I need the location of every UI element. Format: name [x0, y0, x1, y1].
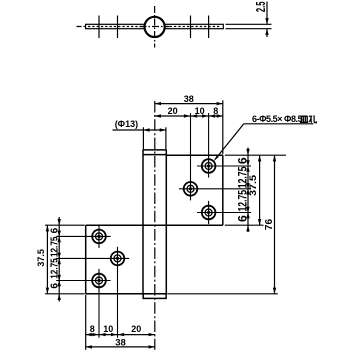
extension: middle edge right — [225, 224, 264, 226]
front view: right plate top edge — [166, 154, 223, 156]
chain text 6 (left bottom) — [49, 283, 60, 289]
dimension 37.5 (left): text — [36, 249, 46, 267]
svg-text:8: 8 — [213, 106, 218, 116]
dimension 2.5: dimension line with arrows — [265, 2, 268, 38]
extension: right plate top edge right — [225, 154, 286, 156]
extension: bottom edge left — [45, 293, 85, 295]
dimension (phi13): dimension line — [113, 128, 166, 131]
front view: barrel top edge — [143, 149, 167, 151]
svg-text:10: 10 — [103, 324, 113, 334]
top view: hidden hole line (dashed) — [88, 26, 221, 28]
top view: hole mark 1 — [98, 16, 100, 39]
dimension 8 (top): text — [213, 106, 218, 116]
leader note: leader line to hole R1 — [214, 124, 244, 161]
dimension 2.5: top extension line — [226, 23, 272, 25]
top view: hole mark 2 — [117, 16, 119, 39]
chain text 6 (right bottom) — [235, 215, 249, 222]
dimension 10 (top): text — [195, 106, 205, 116]
extension: plate left edge down — [85, 295, 87, 350]
svg-text:38: 38 — [115, 338, 126, 349]
front view: middle edge across barrel — [86, 224, 223, 226]
extension: plate right edge up — [222, 100, 224, 154]
dimension 37.5 (right): line — [258, 155, 261, 225]
dimension 76: text — [264, 219, 275, 231]
dimension 37.5 (left): line — [46, 225, 49, 294]
svg-text:6: 6 — [235, 215, 249, 222]
chain dimension line (left 6/12.75/12.75/6) — [58, 217, 61, 302]
top view: circle horizontal centerline — [140, 26, 170, 28]
hole R1 (top right, countersunk) — [197, 113, 251, 178]
dimension 8/10/20 (bottom): line — [86, 333, 155, 336]
top view: circle vertical centerline — [154, 6, 156, 48]
chain text 12.75 (right lower) — [235, 190, 249, 212]
extension: bottom edge right — [167, 293, 277, 295]
top view: hinge plate bar outline — [86, 24, 224, 28]
svg-text:38: 38 — [184, 94, 194, 104]
dimension 20 (bottom): text — [131, 324, 141, 334]
extension: middle edge left — [45, 224, 85, 226]
leader note 6-phi5.5 x phi8.5: text — [252, 114, 303, 124]
chain text 6 (left top) — [49, 227, 60, 233]
front view: bottom cap — [143, 294, 166, 299]
hole L3 (bottom left) — [56, 269, 110, 338]
chain text 12.75 (left lower) — [49, 258, 60, 279]
dimension 38 (bottom): line — [86, 345, 155, 348]
dimension 76: line — [273, 155, 276, 294]
leader note: underline — [244, 123, 314, 125]
top view: hole mark 3 — [190, 16, 192, 39]
front view: barrel left edge — [142, 150, 144, 294]
svg-text:6-Φ5.5× Φ8.5: 6-Φ5.5× Φ8.5 — [252, 114, 303, 124]
dimension 2.5: bottom extension line — [226, 28, 272, 30]
svg-text:12.75: 12.75 — [49, 258, 60, 279]
dimension 38 (top): line and arrows — [155, 102, 223, 105]
dimension 10 (bottom): text — [103, 324, 113, 334]
dimension 37.5 (right): text — [248, 175, 258, 196]
svg-text:37.5: 37.5 — [36, 249, 46, 267]
top view: hole mark 4 — [208, 16, 210, 39]
leader note: kanji 'sara-ana' (countersink) glyphs — [300, 115, 316, 122]
hole L1 (top left) — [56, 225, 110, 248]
svg-text:6: 6 — [49, 227, 60, 233]
svg-text:(Φ13): (Φ13) — [115, 119, 138, 129]
hole R3 (bottom right) — [197, 201, 251, 224]
front view: pin centerline — [154, 101, 156, 350]
chain text 12.75 (right upper) — [235, 166, 249, 188]
svg-text:6: 6 — [49, 283, 60, 289]
svg-text:8: 8 — [90, 324, 95, 334]
dimension 38 (top): text — [184, 94, 194, 104]
svg-text:6: 6 — [235, 157, 249, 164]
svg-text:20: 20 — [131, 324, 141, 334]
svg-text:12.75: 12.75 — [49, 236, 60, 257]
top view: knuckle circle — [145, 17, 165, 37]
hole R2 (middle right) — [179, 113, 251, 200]
svg-text:37.5: 37.5 — [248, 175, 258, 196]
svg-text:2.5: 2.5 — [253, 1, 268, 12]
svg-text:20: 20 — [168, 106, 178, 116]
svg-text:10: 10 — [195, 106, 205, 116]
front view: barrel top cap line — [143, 154, 167, 156]
dimension 20 (top): text — [168, 106, 178, 116]
dimension 20/10/8 (top): line — [155, 114, 223, 117]
dimension (phi13): text — [115, 119, 138, 129]
svg-text:76: 76 — [264, 219, 275, 231]
chain text 12.75 (left upper) — [49, 236, 60, 257]
dimension 2.5: text — [253, 1, 268, 12]
hole L2 (middle left) — [56, 247, 129, 338]
top view: left centerline stub — [77, 26, 86, 28]
dimension (phi13): extension lines — [143, 127, 166, 149]
dimension 8 (bottom): text — [90, 324, 95, 334]
dimension 38 (bottom): text — [115, 338, 126, 349]
front view: barrel right edge — [165, 150, 167, 294]
front view: left plate left edge — [85, 225, 87, 294]
front view: right plate right edge — [222, 155, 224, 225]
chain text 6 (right top) — [235, 157, 249, 164]
chain dimension line (right 6/12.75/12.75/6) — [246, 148, 249, 233]
front view: bottom edge — [86, 293, 167, 295]
